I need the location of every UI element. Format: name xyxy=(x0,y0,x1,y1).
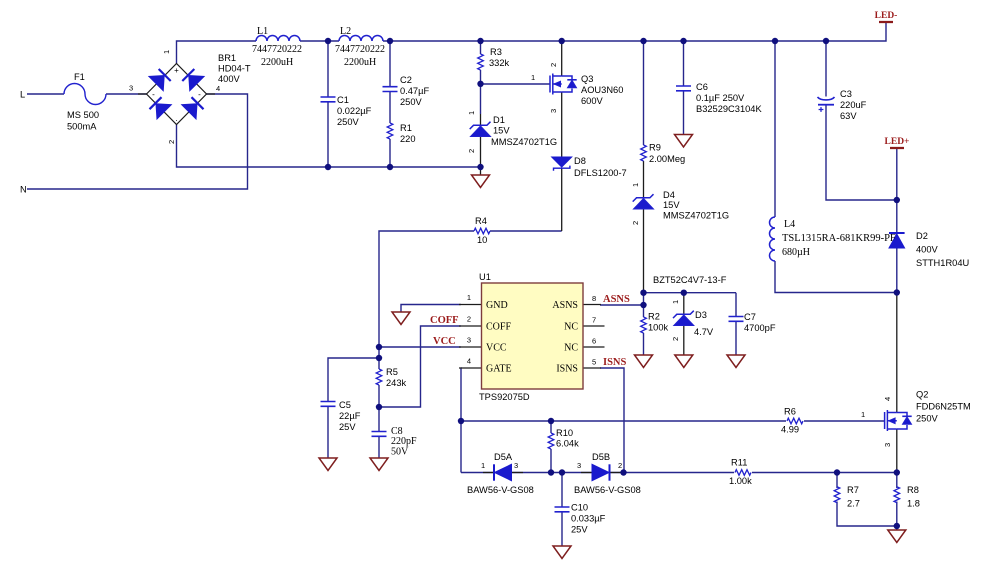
svg-text:+: + xyxy=(174,66,179,75)
svg-text:3: 3 xyxy=(467,336,471,345)
svg-text:50V: 50V xyxy=(391,447,409,458)
svg-text:D5B: D5B xyxy=(592,452,610,462)
svg-text:D5A: D5A xyxy=(494,452,513,462)
svg-text:3: 3 xyxy=(883,443,892,447)
svg-text:1: 1 xyxy=(631,183,640,187)
svg-text:220pF: 220pF xyxy=(391,436,417,447)
svg-text:0.033µF: 0.033µF xyxy=(571,514,606,524)
svg-text:400V: 400V xyxy=(916,245,939,255)
svg-text:2: 2 xyxy=(671,337,680,341)
svg-text:-: - xyxy=(198,90,201,99)
svg-text:BAW56-V-GS08: BAW56-V-GS08 xyxy=(574,485,641,495)
svg-text:600V: 600V xyxy=(581,96,604,106)
svg-text:-: - xyxy=(152,90,155,99)
svg-text:2: 2 xyxy=(631,221,640,225)
svg-text:220uF: 220uF xyxy=(840,100,867,110)
svg-text:C10: C10 xyxy=(571,503,588,513)
svg-text:1.8: 1.8 xyxy=(907,499,920,509)
svg-text:FDD6N25TM: FDD6N25TM xyxy=(916,402,971,412)
svg-text:3: 3 xyxy=(514,461,518,470)
svg-text:HD04-T: HD04-T xyxy=(218,64,251,74)
svg-text:15V: 15V xyxy=(493,126,510,136)
svg-text:1: 1 xyxy=(671,300,680,304)
svg-text:4.7V: 4.7V xyxy=(694,327,714,337)
svg-text:500mA: 500mA xyxy=(67,122,97,132)
svg-text:D2: D2 xyxy=(916,231,928,241)
svg-text:400V: 400V xyxy=(218,74,241,84)
svg-text:63V: 63V xyxy=(840,111,857,121)
svg-text:1: 1 xyxy=(531,73,535,82)
svg-text:C1: C1 xyxy=(337,95,349,105)
svg-text:Q3: Q3 xyxy=(581,74,593,84)
svg-text:2200uH: 2200uH xyxy=(344,57,376,68)
svg-text:243k: 243k xyxy=(386,378,407,388)
svg-text:7447720222: 7447720222 xyxy=(335,44,385,55)
svg-text:R4: R4 xyxy=(475,216,487,226)
svg-text:MMSZ4702T1G: MMSZ4702T1G xyxy=(491,137,557,147)
svg-text:C3: C3 xyxy=(840,89,852,99)
svg-text:ASNS: ASNS xyxy=(552,300,578,311)
svg-text:MS 500: MS 500 xyxy=(67,110,99,120)
svg-text:LED-: LED- xyxy=(875,11,898,21)
svg-text:4: 4 xyxy=(883,397,892,401)
svg-text:0.1µF 250V: 0.1µF 250V xyxy=(696,93,745,103)
svg-text:TSL1315RA-681KR99-PF: TSL1315RA-681KR99-PF xyxy=(782,233,896,244)
svg-text:F1: F1 xyxy=(74,72,85,82)
svg-text:R8: R8 xyxy=(907,485,919,495)
svg-text:N: N xyxy=(20,185,27,195)
svg-text:4700pF: 4700pF xyxy=(744,323,776,333)
svg-text:VCC: VCC xyxy=(486,343,507,354)
svg-text:3: 3 xyxy=(129,84,133,93)
svg-text:D8: D8 xyxy=(574,156,586,166)
svg-text:ASNS: ASNS xyxy=(603,294,630,305)
svg-text:6.04k: 6.04k xyxy=(556,439,579,449)
svg-text:D3: D3 xyxy=(695,310,707,320)
svg-text:DFLS1200-7: DFLS1200-7 xyxy=(574,168,627,178)
svg-text:4.99: 4.99 xyxy=(781,425,799,435)
svg-text:C7: C7 xyxy=(744,312,756,322)
svg-text:1: 1 xyxy=(467,293,471,302)
svg-text:250V: 250V xyxy=(337,117,360,127)
svg-text:D1: D1 xyxy=(493,115,505,125)
svg-text:7: 7 xyxy=(592,316,596,325)
svg-text:COFF: COFF xyxy=(430,315,459,326)
svg-text:8: 8 xyxy=(592,294,596,303)
svg-text:COFF: COFF xyxy=(486,322,511,333)
svg-text:L: L xyxy=(20,90,25,100)
svg-text:BAW56-V-GS08: BAW56-V-GS08 xyxy=(467,485,534,495)
svg-text:NC: NC xyxy=(564,343,578,354)
svg-text:R11: R11 xyxy=(731,458,747,468)
svg-text:25V: 25V xyxy=(571,525,588,535)
svg-text:ISNS: ISNS xyxy=(556,364,578,375)
svg-text:3: 3 xyxy=(577,461,581,470)
svg-text:GATE: GATE xyxy=(486,364,512,375)
svg-text:220: 220 xyxy=(400,134,416,144)
svg-text:22µF: 22µF xyxy=(339,411,361,421)
svg-text:2.00Meg: 2.00Meg xyxy=(649,154,685,164)
svg-text:1.00k: 1.00k xyxy=(729,476,752,486)
svg-text:C5: C5 xyxy=(339,400,351,410)
svg-text:250V: 250V xyxy=(916,414,939,424)
svg-text:7447720222: 7447720222 xyxy=(252,44,302,55)
svg-text:2: 2 xyxy=(467,315,471,324)
svg-text:100k: 100k xyxy=(648,323,669,333)
svg-text:MMSZ4702T1G: MMSZ4702T1G xyxy=(663,211,729,221)
svg-text:R5: R5 xyxy=(386,367,398,377)
svg-text:4: 4 xyxy=(216,84,220,93)
svg-text:Q2: Q2 xyxy=(916,390,928,400)
svg-text:R2: R2 xyxy=(648,312,660,322)
svg-text:GND: GND xyxy=(486,300,508,311)
svg-text:10: 10 xyxy=(477,235,487,245)
svg-text:R3: R3 xyxy=(490,47,502,57)
svg-text:25V: 25V xyxy=(339,422,356,432)
svg-text:1: 1 xyxy=(467,111,476,115)
svg-text:680µH: 680µH xyxy=(782,247,810,258)
svg-text:R9: R9 xyxy=(649,143,661,153)
svg-text:LED+: LED+ xyxy=(885,137,910,147)
svg-text:0.022µF: 0.022µF xyxy=(337,106,372,116)
svg-text:250V: 250V xyxy=(400,97,423,107)
svg-text:4: 4 xyxy=(467,357,471,366)
svg-text:1: 1 xyxy=(162,50,171,54)
svg-text:BR1: BR1 xyxy=(218,53,236,63)
svg-text:2: 2 xyxy=(618,461,622,470)
svg-text:2.7: 2.7 xyxy=(847,499,860,509)
svg-text:C6: C6 xyxy=(696,82,708,92)
svg-text:R10: R10 xyxy=(556,428,573,438)
svg-text:R7: R7 xyxy=(847,485,859,495)
svg-text:AOU3N60: AOU3N60 xyxy=(581,85,623,95)
svg-text:2: 2 xyxy=(467,149,476,153)
svg-text:1: 1 xyxy=(861,410,865,419)
svg-text:L2: L2 xyxy=(340,26,351,37)
svg-text:STTH1R04U: STTH1R04U xyxy=(916,258,969,268)
svg-text:R1: R1 xyxy=(400,123,412,133)
svg-text:.: . xyxy=(175,114,177,123)
svg-text:L1: L1 xyxy=(257,26,268,37)
svg-text:ISNS: ISNS xyxy=(603,357,627,368)
svg-text:B32529C3104K: B32529C3104K xyxy=(696,104,762,114)
svg-text:6: 6 xyxy=(592,337,596,346)
svg-text:3: 3 xyxy=(549,109,558,113)
svg-text:L4: L4 xyxy=(784,219,795,230)
svg-text:5: 5 xyxy=(592,358,596,367)
svg-text:0.47µF: 0.47µF xyxy=(400,86,429,96)
svg-text:15V: 15V xyxy=(663,200,680,210)
svg-text:NC: NC xyxy=(564,322,578,333)
svg-text:2: 2 xyxy=(549,63,558,67)
svg-text:BZT52C4V7-13-F: BZT52C4V7-13-F xyxy=(653,275,727,285)
svg-text:2200uH: 2200uH xyxy=(261,57,293,68)
svg-text:2: 2 xyxy=(167,140,176,144)
svg-text:TPS92075D: TPS92075D xyxy=(479,392,530,402)
svg-text:U1: U1 xyxy=(479,272,491,282)
svg-text:332k: 332k xyxy=(489,58,510,68)
svg-text:1: 1 xyxy=(481,461,485,470)
svg-text:R6: R6 xyxy=(784,407,796,417)
svg-text:C2: C2 xyxy=(400,75,412,85)
svg-text:VCC: VCC xyxy=(433,336,456,347)
svg-text:D4: D4 xyxy=(663,190,675,200)
